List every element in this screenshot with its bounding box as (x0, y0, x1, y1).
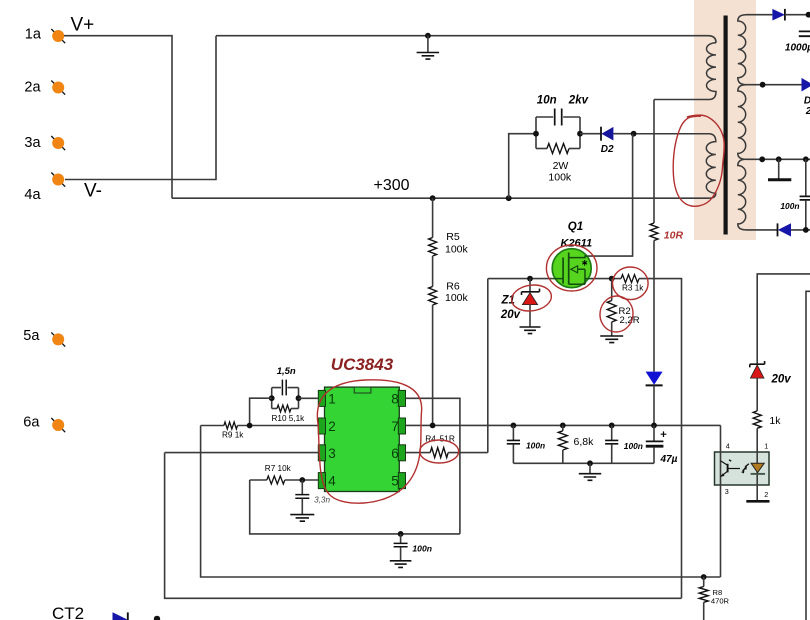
resistor R7 10k (250, 479, 267, 481)
opto LED (751, 463, 764, 472)
svg-text:R5: R5 (446, 231, 460, 243)
annotation circle around R2 (598, 294, 636, 334)
terminal 6a (51, 418, 65, 432)
transformer aux winding (circled) with top lead from D2 node (634, 134, 716, 199)
wire +300 rail to snubber (506, 195, 512, 201)
svg-text:2a: 2a (24, 80, 41, 96)
wire D2 node down to Q1 drain (588, 134, 633, 256)
svg-text:100n: 100n (624, 441, 643, 451)
node R2/R3 source (609, 276, 615, 282)
svg-text:2W: 2W (553, 160, 569, 172)
svg-text:R6: R6 (446, 281, 460, 293)
svg-text:R3 1k: R3 1k (622, 284, 644, 293)
terminal 2a (51, 81, 65, 95)
svg-text:1,5n: 1,5n (277, 366, 296, 377)
opto phototransistor (727, 464, 729, 473)
svg-text:470R: 470R (711, 596, 730, 605)
svg-text:10R: 10R (664, 230, 684, 242)
U1 pin 6 (398, 445, 405, 461)
svg-text:6,8k: 6,8k (574, 436, 595, 448)
wire R9 left down to opto return rail (201, 426, 721, 578)
svg-text:100k: 100k (548, 171, 572, 183)
capacitor 10n 2kv (555, 109, 562, 126)
wire snubber to D2 (580, 133, 601, 135)
svg-text:5a: 5a (23, 328, 40, 344)
snubber network box (536, 117, 580, 149)
wire zener feed corner (757, 274, 810, 364)
annotation circle around Q1 (546, 245, 597, 291)
resistor 6,8k (560, 423, 566, 429)
opto pin4/pin3 wire through box (720, 425, 722, 577)
transformer core (724, 16, 728, 235)
wire RC network to pin 1 (299, 397, 319, 399)
svg-text:3a: 3a (24, 135, 41, 151)
svg-text:V+: V+ (71, 15, 95, 36)
resistor 10R (650, 223, 658, 241)
svg-text:7: 7 (391, 419, 399, 434)
capacitor 1000µ (799, 31, 810, 36)
svg-text:100n: 100n (526, 440, 545, 450)
secondary winding W1 (738, 15, 746, 85)
secondary winding W2 (738, 85, 746, 160)
capacitor 100n right edge (805, 159, 807, 196)
wire R6 down to pin7 rail (432, 305, 434, 425)
svg-text:Q1: Q1 (568, 221, 583, 233)
wire primary bottom to 10R (653, 100, 655, 224)
svg-text:100n: 100n (780, 201, 799, 211)
ground below R2 (611, 322, 613, 336)
U1 notch (354, 387, 371, 393)
zener D7 20v (750, 361, 765, 367)
ground at top rail (425, 33, 431, 39)
svg-text:4a: 4a (24, 187, 41, 203)
ground at opto pin2 (746, 500, 769, 503)
svg-text:V-: V- (84, 181, 102, 202)
svg-text:1: 1 (764, 442, 768, 451)
resistor R3 1k (621, 275, 639, 283)
capacitor 1,5n / resistor R10 parallel network (272, 388, 299, 409)
diode CT2 (clipped) (113, 612, 128, 620)
svg-text:1000µ: 1000µ (785, 43, 810, 54)
svg-text:6: 6 (391, 446, 399, 461)
resistor R5 100k (432, 198, 434, 237)
top rail with primary winding lead (216, 36, 716, 43)
diode D2 (600, 127, 602, 141)
transformer primary winding (top) (654, 43, 716, 100)
node CT2 (clipped) (154, 616, 160, 620)
wire R3 to feedback vertical (639, 279, 682, 599)
annotation circle around Z1 (510, 283, 553, 314)
annotation blob around UC3843 (317, 380, 421, 503)
wire source line (591, 278, 621, 280)
right edge box corner (806, 291, 810, 620)
terminal 4a (51, 173, 65, 187)
svg-text:R7 10k: R7 10k (265, 464, 292, 473)
wire gate drive vertical (487, 279, 489, 453)
svg-text:UC3843: UC3843 (331, 355, 394, 374)
resistor 100k 2W (536, 148, 547, 150)
node Z1 (527, 276, 533, 282)
svg-text:R9 1k: R9 1k (222, 430, 244, 439)
wire pin 7 rail (406, 424, 721, 426)
resistor R4 51R (pin 6 gate drive) (406, 452, 431, 454)
wire pin 3 left (165, 452, 319, 454)
svg-text:R10 5,1k: R10 5,1k (272, 414, 306, 423)
svg-text:2: 2 (764, 490, 768, 499)
resistor R8 470R (701, 574, 707, 580)
+300 rail (aux winding bottom) (172, 197, 709, 199)
U1 pin 5 (398, 473, 405, 489)
svg-text:2kv: 2kv (568, 95, 589, 107)
resistor R9 1k (201, 425, 224, 427)
op-amp U1 UC3843 body (325, 387, 400, 491)
wire secondary bottom lead (746, 229, 778, 231)
svg-text:10n: 10n (537, 95, 557, 107)
svg-text:4: 4 (726, 442, 730, 451)
svg-text:2: 2 (328, 419, 336, 434)
svg-text:20v: 20v (771, 374, 792, 386)
annotation circle around R3 (613, 267, 649, 300)
optocoupler U2 (715, 452, 770, 485)
U1 pin 4 (318, 473, 325, 489)
capacitor 47µ electrolytic (651, 423, 657, 429)
svg-text:20v: 20v (500, 309, 521, 321)
wire secondary tap 1 (746, 84, 802, 86)
svg-text:4: 4 (328, 474, 336, 489)
wire secondary tap 2 (746, 158, 810, 160)
svg-text:2: 2 (805, 106, 810, 117)
terminal 5a (51, 332, 65, 346)
wire secondary top lead (746, 14, 772, 16)
svg-text:5: 5 (391, 474, 399, 489)
annotation circle around aux winding (673, 115, 724, 206)
svg-text:K2611: K2611 (561, 237, 593, 249)
svg-text:D2: D2 (601, 144, 614, 155)
zener Z1 20v (529, 279, 531, 292)
wire after D4 (785, 14, 810, 16)
diode D5 (clipped at edge) (802, 78, 810, 92)
wire pin 8 right and down (406, 398, 460, 534)
U1 pin 2 (318, 418, 325, 434)
svg-text:51R: 51R (440, 434, 455, 444)
svg-text:CT2: CT2 (52, 604, 84, 620)
svg-text:1k: 1k (769, 415, 781, 427)
U1 pin 3 (318, 445, 325, 461)
svg-text:100k: 100k (445, 292, 469, 304)
ground bar at tap 2 (778, 159, 780, 178)
svg-text:3: 3 (725, 487, 729, 496)
capacitor 100n under IC (398, 531, 404, 537)
U1 pin 7 (398, 418, 405, 434)
U1 pin 8 (398, 390, 405, 406)
wire RC network left to R9 node (250, 398, 272, 425)
resistor R2 2,2R (611, 279, 613, 301)
svg-text:+300: +300 (374, 177, 410, 194)
svg-text:3,3n: 3,3n (314, 495, 330, 504)
diode D6 bottom (points left) (777, 223, 779, 236)
wire pin3 loop bottom rail (165, 453, 682, 599)
svg-text:1: 1 (328, 391, 336, 406)
bottom rail with ground (513, 462, 654, 464)
opto pin1/pin2 wire through box (756, 428, 758, 501)
svg-text:8: 8 (391, 391, 399, 406)
resistor 1k (753, 411, 761, 428)
opto light arrows (743, 464, 749, 471)
capacitor 100n (pin7 rail) (511, 423, 517, 429)
wire V- up to top rail (65, 36, 216, 180)
capacitor 3,3n (301, 480, 303, 494)
transformer T1 selection highlight (694, 0, 756, 240)
diode D4 top right (772, 9, 785, 21)
resistor R6 100k (432, 256, 434, 287)
svg-text:100k: 100k (445, 243, 469, 255)
U1 pin 1 (318, 390, 325, 406)
capacitor 100n (second) (609, 423, 615, 429)
wire V+ to +300 rail (64, 36, 172, 199)
terminal 3a (51, 136, 65, 150)
annotation circle around R4 (420, 440, 459, 463)
node +300/R5 (430, 195, 436, 201)
svg-text:100n: 100n (412, 543, 432, 553)
MOSFET Q1 K2611 (552, 249, 591, 288)
svg-text:47µ: 47µ (660, 454, 678, 465)
secondary winding W3 (738, 159, 746, 230)
wire R7 left down to inner bottom rail (250, 480, 460, 534)
svg-text:6a: 6a (23, 415, 40, 431)
terminal 1a (51, 29, 65, 43)
svg-text:3: 3 (328, 446, 336, 461)
diode D3 (blue, down) (646, 372, 663, 385)
wire gate line (488, 278, 553, 280)
svg-text:1a: 1a (25, 27, 42, 43)
